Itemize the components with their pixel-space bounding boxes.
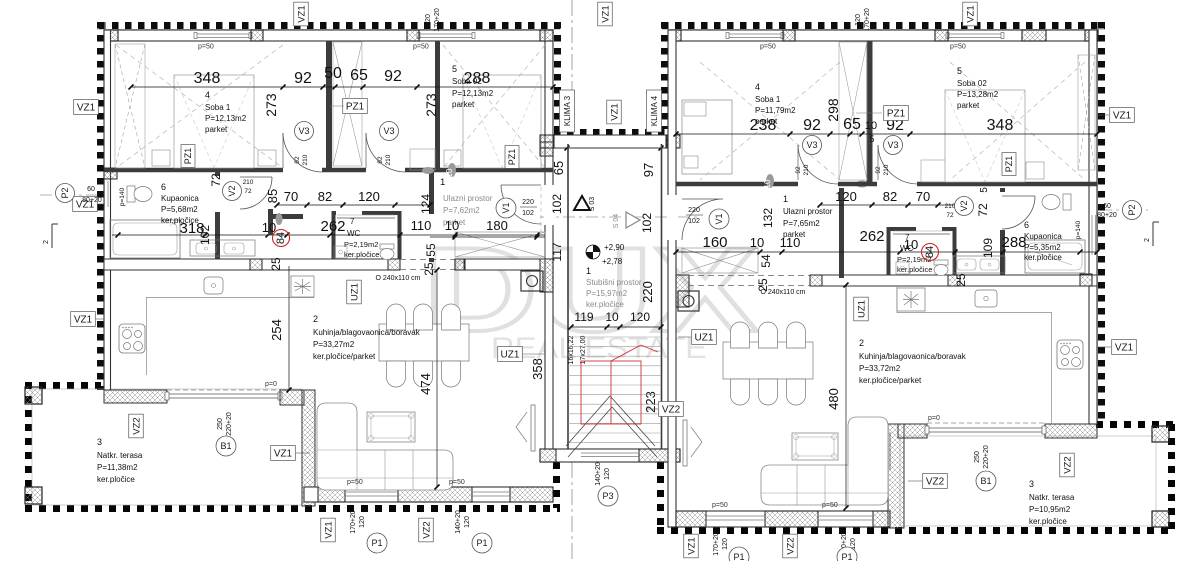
right block east wall	[1089, 30, 1097, 424]
svg-text:P=2,19m2: P=2,19m2	[344, 240, 378, 249]
svg-text:70: 70	[284, 189, 298, 204]
V3 circle b	[380, 122, 399, 141]
svg-text:P=11,79m2: P=11,79m2	[755, 106, 796, 115]
WC door gap R	[916, 225, 942, 233]
svg-text:102: 102	[550, 194, 564, 214]
pier south 3	[510, 487, 553, 502]
dim 10 oval R	[766, 174, 774, 188]
p2 circle right	[1123, 201, 1142, 220]
door opening soba1 R	[798, 180, 838, 188]
svg-text:VZ2: VZ2	[785, 537, 796, 554]
door gap bath R	[999, 192, 1006, 230]
section line top middle	[571, 0, 573, 132]
terrace left border top	[25, 382, 101, 389]
svg-text:170+20: 170+20	[713, 532, 720, 556]
washing machine left	[521, 271, 543, 291]
svg-text:140+20: 140+20	[455, 510, 462, 534]
kitchen star symbol	[291, 276, 314, 297]
soba2R wardrobe strip	[1078, 55, 1095, 170]
terrace right border right	[1168, 424, 1175, 532]
svg-text:85: 85	[265, 189, 280, 203]
svg-text:102: 102	[522, 210, 534, 217]
terrace left thin inner	[32, 389, 302, 505]
svg-text:109: 109	[981, 238, 995, 258]
svg-text:P=12,13m2: P=12,13m2	[452, 89, 494, 98]
pier south R2	[765, 511, 818, 527]
svg-text:p=140: p=140	[119, 187, 126, 206]
dining table left	[379, 324, 469, 361]
svg-text:210: 210	[302, 154, 309, 165]
door arc bath R V2	[1002, 196, 1035, 229]
svg-text:VZ1: VZ1	[1113, 111, 1132, 122]
svg-text:V3: V3	[887, 140, 898, 150]
S03 triangle	[574, 196, 590, 210]
washing machine right	[678, 291, 699, 311]
svg-text:parket: parket	[205, 125, 228, 134]
P3 circle	[598, 486, 618, 506]
window west bath	[104, 181, 106, 207]
svg-text:p=50: p=50	[413, 44, 429, 51]
svg-text:B1: B1	[980, 476, 991, 486]
wc sink	[334, 246, 347, 258]
pier north 1	[106, 30, 118, 41]
window east bath R	[1091, 215, 1093, 255]
kitchen counter edge	[146, 297, 314, 299]
svg-text:P2: P2	[60, 187, 70, 198]
svg-text:55: 55	[424, 243, 438, 257]
svg-text:ker.pločice: ker.pločice	[344, 250, 379, 259]
svg-text:10: 10	[763, 179, 772, 188]
svg-text:92: 92	[875, 166, 882, 174]
svg-text:210: 210	[243, 179, 254, 186]
window north-left glazing R	[728, 33, 783, 35]
svg-text:5: 5	[979, 187, 990, 193]
door opening soba1	[283, 166, 322, 174]
svg-text:p=140: p=140	[1075, 220, 1082, 239]
gray oval soba2L	[422, 167, 434, 174]
wall bath east	[215, 172, 220, 262]
svg-text:V1: V1	[714, 213, 724, 224]
svg-text:17x27,00: 17x27,00	[580, 335, 587, 364]
svg-text:ker.pločice: ker.pločice	[97, 475, 135, 484]
vz1 box west upper	[74, 100, 99, 115]
svg-text:92: 92	[294, 156, 301, 164]
dim 84 red circle R	[922, 244, 939, 261]
svg-text:220: 220	[522, 199, 534, 206]
stair dim line	[571, 326, 661, 328]
stair border right vertical	[657, 462, 664, 530]
svg-text:1: 1	[586, 266, 591, 276]
right block west wall (stair side)	[668, 30, 676, 527]
dim line top right block	[676, 133, 1097, 135]
dining table right	[723, 342, 813, 379]
svg-text:PZ1: PZ1	[346, 102, 365, 113]
svg-text:V3: V3	[298, 126, 309, 136]
pier south R3	[873, 511, 890, 527]
terrace corner post right bottom	[1152, 511, 1169, 527]
soba1 slope dashes	[116, 45, 283, 168]
svg-text:VZ2: VZ2	[131, 417, 142, 434]
coffee table right	[792, 433, 838, 460]
svg-text:254: 254	[269, 319, 284, 341]
svg-text:parket: parket	[755, 117, 778, 126]
uz1 box right	[692, 330, 717, 345]
svg-text:2: 2	[1144, 238, 1151, 242]
terrace corner post left bottom	[25, 487, 42, 504]
svg-text:WC: WC	[347, 229, 361, 238]
svg-text:UZ1: UZ1	[856, 300, 867, 318]
svg-text:V3: V3	[806, 140, 817, 150]
svg-text:VZ1: VZ1	[965, 5, 976, 22]
svg-text:P1: P1	[841, 552, 852, 561]
svg-text:P=5,35m2: P=5,35m2	[1024, 243, 1061, 252]
vz1 rot bottom a	[321, 518, 336, 542]
wall entry closet	[464, 259, 540, 270]
svg-text:348: 348	[987, 117, 1014, 134]
svg-text:Natkr. terasa: Natkr. terasa	[97, 451, 143, 460]
svg-text:S 04: S 04	[613, 214, 620, 229]
terrace slider rails R	[927, 427, 1045, 429]
pier north 2	[251, 30, 263, 41]
corner mark left	[51, 224, 53, 248]
vz1 box living left	[271, 446, 296, 461]
svg-text:Soba 02: Soba 02	[452, 77, 482, 86]
pier north R4	[1022, 30, 1046, 41]
svg-text:VZ1: VZ1	[609, 103, 620, 120]
wall entry|hall R	[839, 188, 844, 278]
kitchen sink square	[204, 277, 223, 294]
pier corridor R3	[1080, 274, 1092, 286]
left block north wall band	[104, 30, 553, 41]
svg-text:P=7,62m2: P=7,62m2	[443, 206, 480, 215]
door opening soba2 R	[877, 180, 917, 188]
vz1 rot top mid	[598, 2, 613, 26]
svg-text:2: 2	[43, 240, 50, 244]
left block west wall	[104, 30, 111, 390]
svg-text:V3: V3	[383, 126, 394, 136]
kitchen sink square R	[975, 290, 997, 307]
svg-text:65: 65	[843, 116, 861, 133]
vz2 rot bottom a	[419, 518, 434, 542]
pier north 3	[407, 30, 419, 41]
klima3 box	[560, 90, 575, 132]
svg-text:170+20: 170+20	[434, 8, 441, 32]
dim 10 oval	[448, 163, 456, 177]
pier corridor stair side R	[676, 275, 689, 307]
niche closet soba2R	[921, 160, 958, 182]
V1 circle right	[709, 209, 729, 229]
svg-text:P1: P1	[371, 538, 382, 548]
svg-text:PZ1: PZ1	[183, 148, 193, 165]
svg-text:97: 97	[641, 163, 656, 177]
soba2L slope dashes	[443, 45, 545, 168]
terrace north wall R pier a	[898, 424, 927, 438]
niche closet soba2L	[410, 149, 435, 170]
svg-text:VZ1: VZ1	[74, 315, 93, 326]
wall bath west R	[1000, 188, 1005, 278]
tv left	[531, 405, 535, 451]
insulation guide left top	[97, 29, 560, 31]
svg-text:Stubišni prostor: Stubišni prostor	[586, 278, 642, 287]
svg-text:120: 120	[630, 310, 650, 324]
stair left wall line	[567, 144, 569, 462]
corner hatch east	[540, 259, 553, 292]
pier north R5	[1085, 30, 1098, 41]
uz1 box left	[498, 347, 523, 362]
svg-text:ker.pločice: ker.pločice	[897, 265, 932, 274]
gray oval soba1R	[856, 181, 868, 188]
stair border left vertical	[553, 462, 560, 508]
soba1 bed	[174, 75, 254, 168]
svg-text:p=50: p=50	[822, 502, 838, 509]
vz2 rot right	[1060, 453, 1075, 477]
svg-text:25: 25	[954, 273, 968, 287]
svg-text:V1: V1	[501, 202, 511, 213]
dashes above slider	[167, 389, 281, 391]
svg-text:VZ1: VZ1	[274, 449, 293, 460]
svg-text:PZ1: PZ1	[507, 149, 517, 166]
wall entry|hall	[429, 172, 434, 262]
svg-text:P1: P1	[476, 538, 487, 548]
svg-text:P=10,95m2: P=10,95m2	[1029, 505, 1071, 514]
svg-text:120: 120	[604, 468, 611, 480]
insulation band left block left	[97, 22, 104, 390]
wall bedrooms/corridor	[104, 168, 553, 173]
soba1 wardrobe strip	[115, 44, 145, 168]
svg-text:92: 92	[377, 156, 384, 164]
svg-text:60: 60	[1103, 203, 1111, 210]
pz1 rot box left soba02	[505, 146, 519, 169]
wall bedrooms/corridor R	[676, 182, 1097, 187]
svg-text:ker.pločice/parket: ker.pločice/parket	[313, 352, 376, 361]
svg-text:P=7,65m2: P=7,65m2	[783, 219, 820, 228]
sofa left L-shape	[317, 403, 453, 490]
svg-text:VZ2: VZ2	[421, 521, 432, 538]
svg-text:50: 50	[324, 65, 342, 82]
stair bottom wall	[540, 449, 680, 462]
dim line corridor left	[112, 234, 545, 236]
svg-text:160: 160	[702, 234, 727, 251]
svg-text:Kupaonica: Kupaonica	[1024, 232, 1062, 241]
svg-text:288: 288	[1001, 234, 1026, 251]
svg-text:220: 220	[688, 207, 700, 214]
V2 circle right	[955, 197, 974, 216]
pier south 1	[318, 487, 345, 502]
uz1 rot left	[347, 280, 362, 304]
wall pz1 R	[867, 41, 873, 184]
pier north R1	[669, 30, 681, 41]
svg-text:ker.pločice: ker.pločice	[1024, 253, 1062, 262]
svg-text:82: 82	[883, 189, 897, 204]
right block south wall band	[676, 511, 890, 527]
window south R2	[818, 515, 873, 517]
window north-right glazing R	[948, 33, 1003, 35]
kitchen counter edge R	[897, 312, 1052, 314]
V3 circle a	[295, 122, 314, 141]
svg-text:84: 84	[924, 246, 936, 258]
dining chairs left top	[387, 304, 406, 330]
door arc soba1 R V3	[798, 145, 838, 184]
svg-text:25: 25	[422, 262, 436, 276]
svg-text:132: 132	[761, 208, 775, 228]
svg-text:KLIMA 3: KLIMA 3	[563, 95, 572, 126]
wc counter line	[337, 217, 395, 219]
svg-text:180: 180	[486, 218, 508, 233]
svg-text:3: 3	[1029, 479, 1034, 489]
pz1 wardrobe	[333, 42, 362, 166]
left block east wall (stair side)	[545, 30, 553, 462]
svg-text:parket: parket	[452, 100, 475, 109]
wall terrace north (bath below)	[104, 390, 167, 403]
wall stub hall-WC vertical	[268, 209, 273, 235]
axis line stair horizontal	[540, 216, 700, 218]
V1 circle left	[496, 198, 516, 218]
svg-text:273: 273	[423, 93, 439, 117]
svg-text:P=15,97m2: P=15,97m2	[586, 289, 628, 298]
svg-text:250: 250	[217, 418, 224, 430]
door arc soba2 R V3	[878, 145, 918, 184]
insulation guide right top	[662, 29, 1105, 31]
stair top wall corner right	[666, 135, 680, 148]
svg-text:273: 273	[263, 93, 279, 117]
window north-right glazing	[419, 33, 474, 35]
insulation band right block top	[662, 22, 1105, 29]
terrace corner post left top	[25, 387, 42, 404]
svg-text:60: 60	[87, 186, 95, 193]
svg-text:P=13,28m2: P=13,28m2	[957, 90, 999, 99]
svg-text:5: 5	[869, 134, 874, 144]
kitchen stove	[119, 324, 145, 353]
svg-text:P3: P3	[602, 491, 613, 501]
door arc entry R V1	[682, 199, 723, 240]
svg-text:KLIMA 4: KLIMA 4	[650, 95, 659, 126]
svg-text:Kuhinja/blagovaonica/boravak: Kuhinja/blagovaonica/boravak	[859, 352, 967, 361]
dim line corridor right	[676, 251, 1097, 253]
svg-text:Kuhinja/blagovaonica/boravak: Kuhinja/blagovaonica/boravak	[313, 328, 421, 337]
dim line top left block	[131, 86, 553, 88]
svg-text:120: 120	[835, 189, 857, 204]
svg-text:65: 65	[350, 67, 368, 84]
entry wardrobe	[455, 232, 545, 257]
right block north wall band	[669, 30, 1098, 41]
wall stub hall-WC horizontal	[271, 214, 303, 219]
door arc entry V1	[501, 185, 541, 224]
svg-text:+2,78: +2,78	[602, 257, 623, 266]
svg-text:p=50: p=50	[347, 479, 363, 486]
kitchen stove R	[1057, 340, 1083, 369]
svg-text:2: 2	[859, 338, 864, 348]
svg-text:92: 92	[384, 68, 402, 85]
bathR vanity	[953, 256, 1005, 273]
pier corridor 1	[250, 259, 262, 270]
pier north R3	[935, 30, 948, 41]
pier north R2	[783, 30, 795, 41]
svg-text:10: 10	[445, 218, 459, 233]
svg-text:92: 92	[803, 117, 821, 134]
left block corner pier NE	[540, 30, 553, 41]
door opening soba2-hall	[366, 166, 405, 174]
svg-text:5: 5	[957, 66, 962, 76]
stair red outline	[581, 361, 641, 424]
svg-text:10: 10	[865, 120, 877, 132]
p1 circle aR	[729, 547, 749, 561]
svg-text:PZ1: PZ1	[887, 109, 906, 120]
door arc soba1 V3	[283, 133, 322, 172]
svg-text:80+20: 80+20	[82, 197, 102, 204]
dim line entry lower	[430, 236, 545, 238]
svg-text:p=0: p=0	[265, 381, 277, 388]
door gap entry	[428, 214, 435, 258]
svg-text:4: 4	[205, 90, 210, 100]
svg-text:VZ1: VZ1	[296, 5, 307, 22]
insulation band left block top	[99, 22, 560, 29]
svg-text:102: 102	[198, 225, 212, 245]
door arc bath V2	[240, 177, 272, 209]
svg-text:120: 120	[359, 516, 366, 528]
stair right wall line	[661, 144, 663, 462]
sliding door opening dashed	[400, 259, 455, 261]
svg-text:210: 210	[803, 164, 810, 175]
svg-text:220+20: 220+20	[983, 445, 990, 469]
soba1R bed	[682, 100, 732, 174]
svg-text:10: 10	[445, 168, 454, 177]
svg-text:1: 1	[783, 194, 788, 204]
svg-text:5: 5	[452, 64, 457, 74]
dim 474 rot	[436, 270, 438, 487]
vz1 rot top c	[963, 2, 978, 26]
svg-text:VZ1: VZ1	[686, 537, 697, 554]
svg-text:VZ2: VZ2	[662, 405, 681, 416]
pz1 box right	[884, 106, 909, 121]
svg-text:VZ1: VZ1	[323, 521, 334, 538]
wall soba1|pz1	[326, 41, 332, 172]
V3 circle bR	[884, 136, 903, 155]
pier west corner	[104, 168, 117, 179]
dining chairs right bottom	[731, 379, 750, 405]
svg-text:120: 120	[425, 14, 432, 26]
wcR toilet	[934, 260, 948, 276]
svg-text:124: 124	[419, 194, 433, 214]
svg-text:Ulazni prostor: Ulazni prostor	[783, 207, 833, 216]
svg-text:210: 210	[385, 154, 392, 165]
svg-text:80+20: 80+20	[1097, 212, 1117, 219]
svg-text:72: 72	[976, 203, 990, 217]
vz1 box east low R	[1112, 340, 1137, 355]
svg-text:p=50: p=50	[950, 44, 966, 51]
svg-text:V2: V2	[227, 185, 237, 196]
svg-text:70: 70	[916, 189, 930, 204]
door arc soba2 V3	[366, 133, 405, 172]
svg-text:92: 92	[294, 70, 312, 87]
svg-text:Soba 02: Soba 02	[957, 79, 987, 88]
svg-text:VZ2: VZ2	[1062, 456, 1073, 473]
svg-text:117: 117	[550, 242, 564, 261]
axis line left P2	[40, 194, 100, 196]
svg-text:PZ1: PZ1	[1004, 156, 1014, 173]
svg-text:VZ1: VZ1	[600, 5, 611, 22]
svg-text:140+20: 140+20	[595, 462, 602, 486]
vz1 box west low	[71, 312, 96, 327]
right block border bottom	[657, 527, 1175, 534]
svg-text:P=5,68m2: P=5,68m2	[161, 205, 198, 214]
svg-text:UZ1: UZ1	[695, 333, 714, 344]
dashes above slider R	[927, 422, 1045, 424]
pier entry closet	[455, 259, 465, 270]
svg-text:7: 7	[350, 217, 355, 226]
soba2L nightstand	[444, 150, 461, 166]
wall corridor/kitchen R	[822, 275, 1097, 286]
svg-text:4: 4	[755, 82, 760, 92]
